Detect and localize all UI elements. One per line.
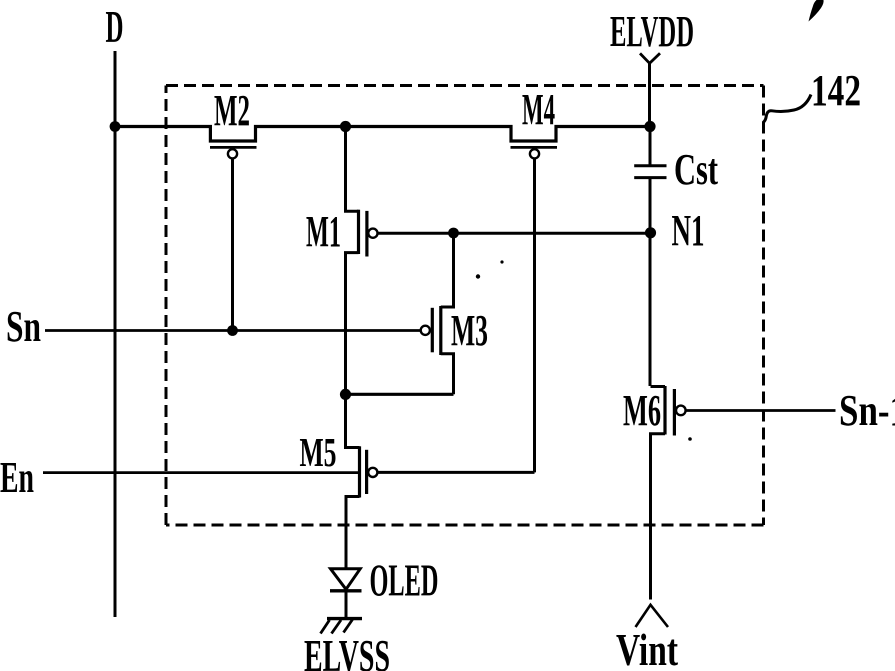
scan speck bbox=[500, 260, 503, 263]
svg-text:D: D bbox=[106, 2, 124, 52]
node dot Sn/M2-gate bbox=[227, 325, 238, 336]
wire M6 gate to Sn-1 bbox=[686, 409, 836, 412]
wire N1 down to M6 bbox=[649, 233, 652, 386]
node dot ELVDD on top rail bbox=[644, 121, 655, 132]
dashed box 142 bbox=[166, 86, 764, 526]
svg-text:M1: M1 bbox=[306, 207, 341, 256]
scan speck bbox=[688, 437, 692, 441]
wire Sn line bbox=[45, 329, 421, 332]
svg-text:M5: M5 bbox=[300, 429, 337, 475]
svg-text:142: 142 bbox=[811, 66, 861, 115]
wire M3 source to M1 drain bbox=[346, 393, 454, 396]
svg-text:Cst: Cst bbox=[674, 145, 718, 194]
svg-text:M6: M6 bbox=[623, 386, 661, 435]
Vint terminal chevron bbox=[636, 605, 669, 627]
corner arrow stroke top-right bbox=[809, 0, 824, 22]
node dot M1 branch on top rail bbox=[340, 121, 351, 132]
svg-text:Vint: Vint bbox=[616, 625, 678, 671]
wire M5 gate to M4 gate line bbox=[377, 471, 534, 474]
wire M4 gate down to En gate wire bbox=[533, 159, 536, 473]
wire D vertical line bbox=[114, 51, 117, 617]
svg-text:En: En bbox=[0, 453, 34, 502]
svg-text:OLED: OLED bbox=[370, 555, 439, 606]
node dot D/top-rail bbox=[110, 121, 121, 132]
node N1 bbox=[645, 227, 656, 238]
svg-text:Sn: Sn bbox=[6, 302, 41, 351]
scan speck bbox=[476, 274, 480, 278]
node dot gate/M3 tee bbox=[448, 228, 459, 239]
leader squiggle to box bbox=[763, 95, 811, 123]
node dot M1/M5/M3 junction bbox=[340, 389, 351, 400]
svg-text:ELVSS: ELVSS bbox=[304, 630, 390, 671]
svg-text:M4: M4 bbox=[522, 85, 555, 134]
svg-text:M2: M2 bbox=[214, 86, 250, 135]
ELVDD terminal chevron bbox=[640, 53, 660, 63]
wire M2 gate down to Sn bbox=[231, 159, 234, 331]
svg-text:M3: M3 bbox=[451, 306, 488, 355]
wire ELVDD stem bbox=[648, 63, 651, 127]
wire En line bbox=[43, 471, 361, 474]
wire M1 gate to N1 bbox=[378, 232, 650, 235]
wire top rail y=126.5 with M2 and M4 channel steps bbox=[115, 127, 650, 142]
svg-text:ELVDD: ELVDD bbox=[610, 7, 694, 56]
wire OLED cathode down bbox=[345, 591, 348, 619]
svg-text:N1: N1 bbox=[672, 206, 705, 255]
ground ELVSS symbol bbox=[327, 617, 362, 620]
svg-text:Sn-1: Sn-1 bbox=[839, 386, 895, 435]
